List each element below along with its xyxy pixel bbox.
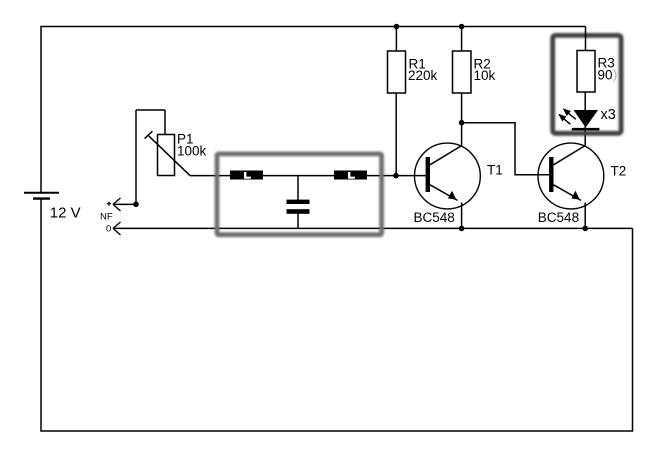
svg-text:220k: 220k bbox=[408, 68, 438, 83]
wire T1 collector riser bbox=[461, 123, 463, 146]
wire P1 feed bbox=[164, 110, 166, 135]
wire capacitor bottom lead bbox=[297, 214, 299, 229]
wire P1 left branch bbox=[135, 110, 137, 204]
LED emission arrow 2 bbox=[558, 114, 570, 124]
potentiometer P1 bbox=[145, 131, 190, 175]
svg-text:12 V: 12 V bbox=[50, 205, 81, 222]
label + bbox=[107, 202, 111, 206]
capacitor C1 bbox=[287, 200, 310, 214]
resistor R3 bbox=[577, 27, 595, 93]
inductor L2 bbox=[334, 171, 367, 180]
transistor T1 BC548 bbox=[415, 143, 481, 209]
label L2 L bbox=[348, 172, 355, 179]
svg-text:T2: T2 bbox=[611, 163, 627, 178]
wire 0 rail bbox=[113, 227, 633, 229]
wire collector node to T2 base bbox=[462, 123, 550, 175]
junction R1 top bbox=[394, 24, 400, 30]
junction R1 bottom base node bbox=[393, 173, 399, 179]
junction T1 collector node bbox=[459, 120, 465, 126]
wire battery negative to bottom return and right riser bbox=[41, 199, 633, 432]
node 0 input arrow bbox=[113, 222, 121, 235]
node NF input arrow bbox=[113, 198, 136, 211]
LED emission arrow 1 bbox=[563, 108, 576, 119]
svg-text:0: 0 bbox=[106, 224, 111, 235]
svg-text:T1: T1 bbox=[487, 163, 503, 178]
wire top rail V+ with battery positive riser bbox=[41, 27, 586, 193]
junction R2 top bbox=[459, 24, 465, 30]
svg-text:NF: NF bbox=[100, 212, 113, 223]
resistor R1 bbox=[388, 27, 406, 176]
resistor R2 bbox=[453, 27, 472, 123]
wire T1 emitter drop bbox=[461, 203, 463, 229]
wire capacitor top lead bbox=[297, 176, 299, 200]
LED box (dark) bbox=[553, 35, 621, 133]
wire T2 emitter drop bbox=[584, 203, 586, 229]
svg-text:90: 90 bbox=[598, 67, 613, 82]
svg-text:10k: 10k bbox=[474, 68, 496, 83]
svg-text:x3: x3 bbox=[601, 107, 616, 123]
junction NF node bbox=[133, 202, 139, 208]
junction T1 emitter on 0 rail bbox=[459, 226, 465, 232]
wire signal line wiper to T1 base bbox=[190, 175, 426, 177]
svg-text:): ) bbox=[613, 67, 617, 82]
svg-text:BC548: BC548 bbox=[538, 210, 579, 225]
transistor T2 BC548 bbox=[538, 143, 604, 209]
junction T2 emitter on 0 rail bbox=[582, 226, 588, 232]
wire P1 top link bbox=[136, 109, 165, 111]
label L1 L bbox=[244, 172, 251, 179]
svg-text:100k: 100k bbox=[177, 143, 207, 158]
svg-text:BC548: BC548 bbox=[414, 210, 455, 225]
battery B1 12V bbox=[24, 193, 59, 199]
LED D1 bbox=[572, 110, 600, 129]
wire T2 collector riser to LED bbox=[584, 92, 586, 146]
filter box (gray) bbox=[217, 154, 382, 235]
inductor L1 bbox=[230, 171, 263, 180]
